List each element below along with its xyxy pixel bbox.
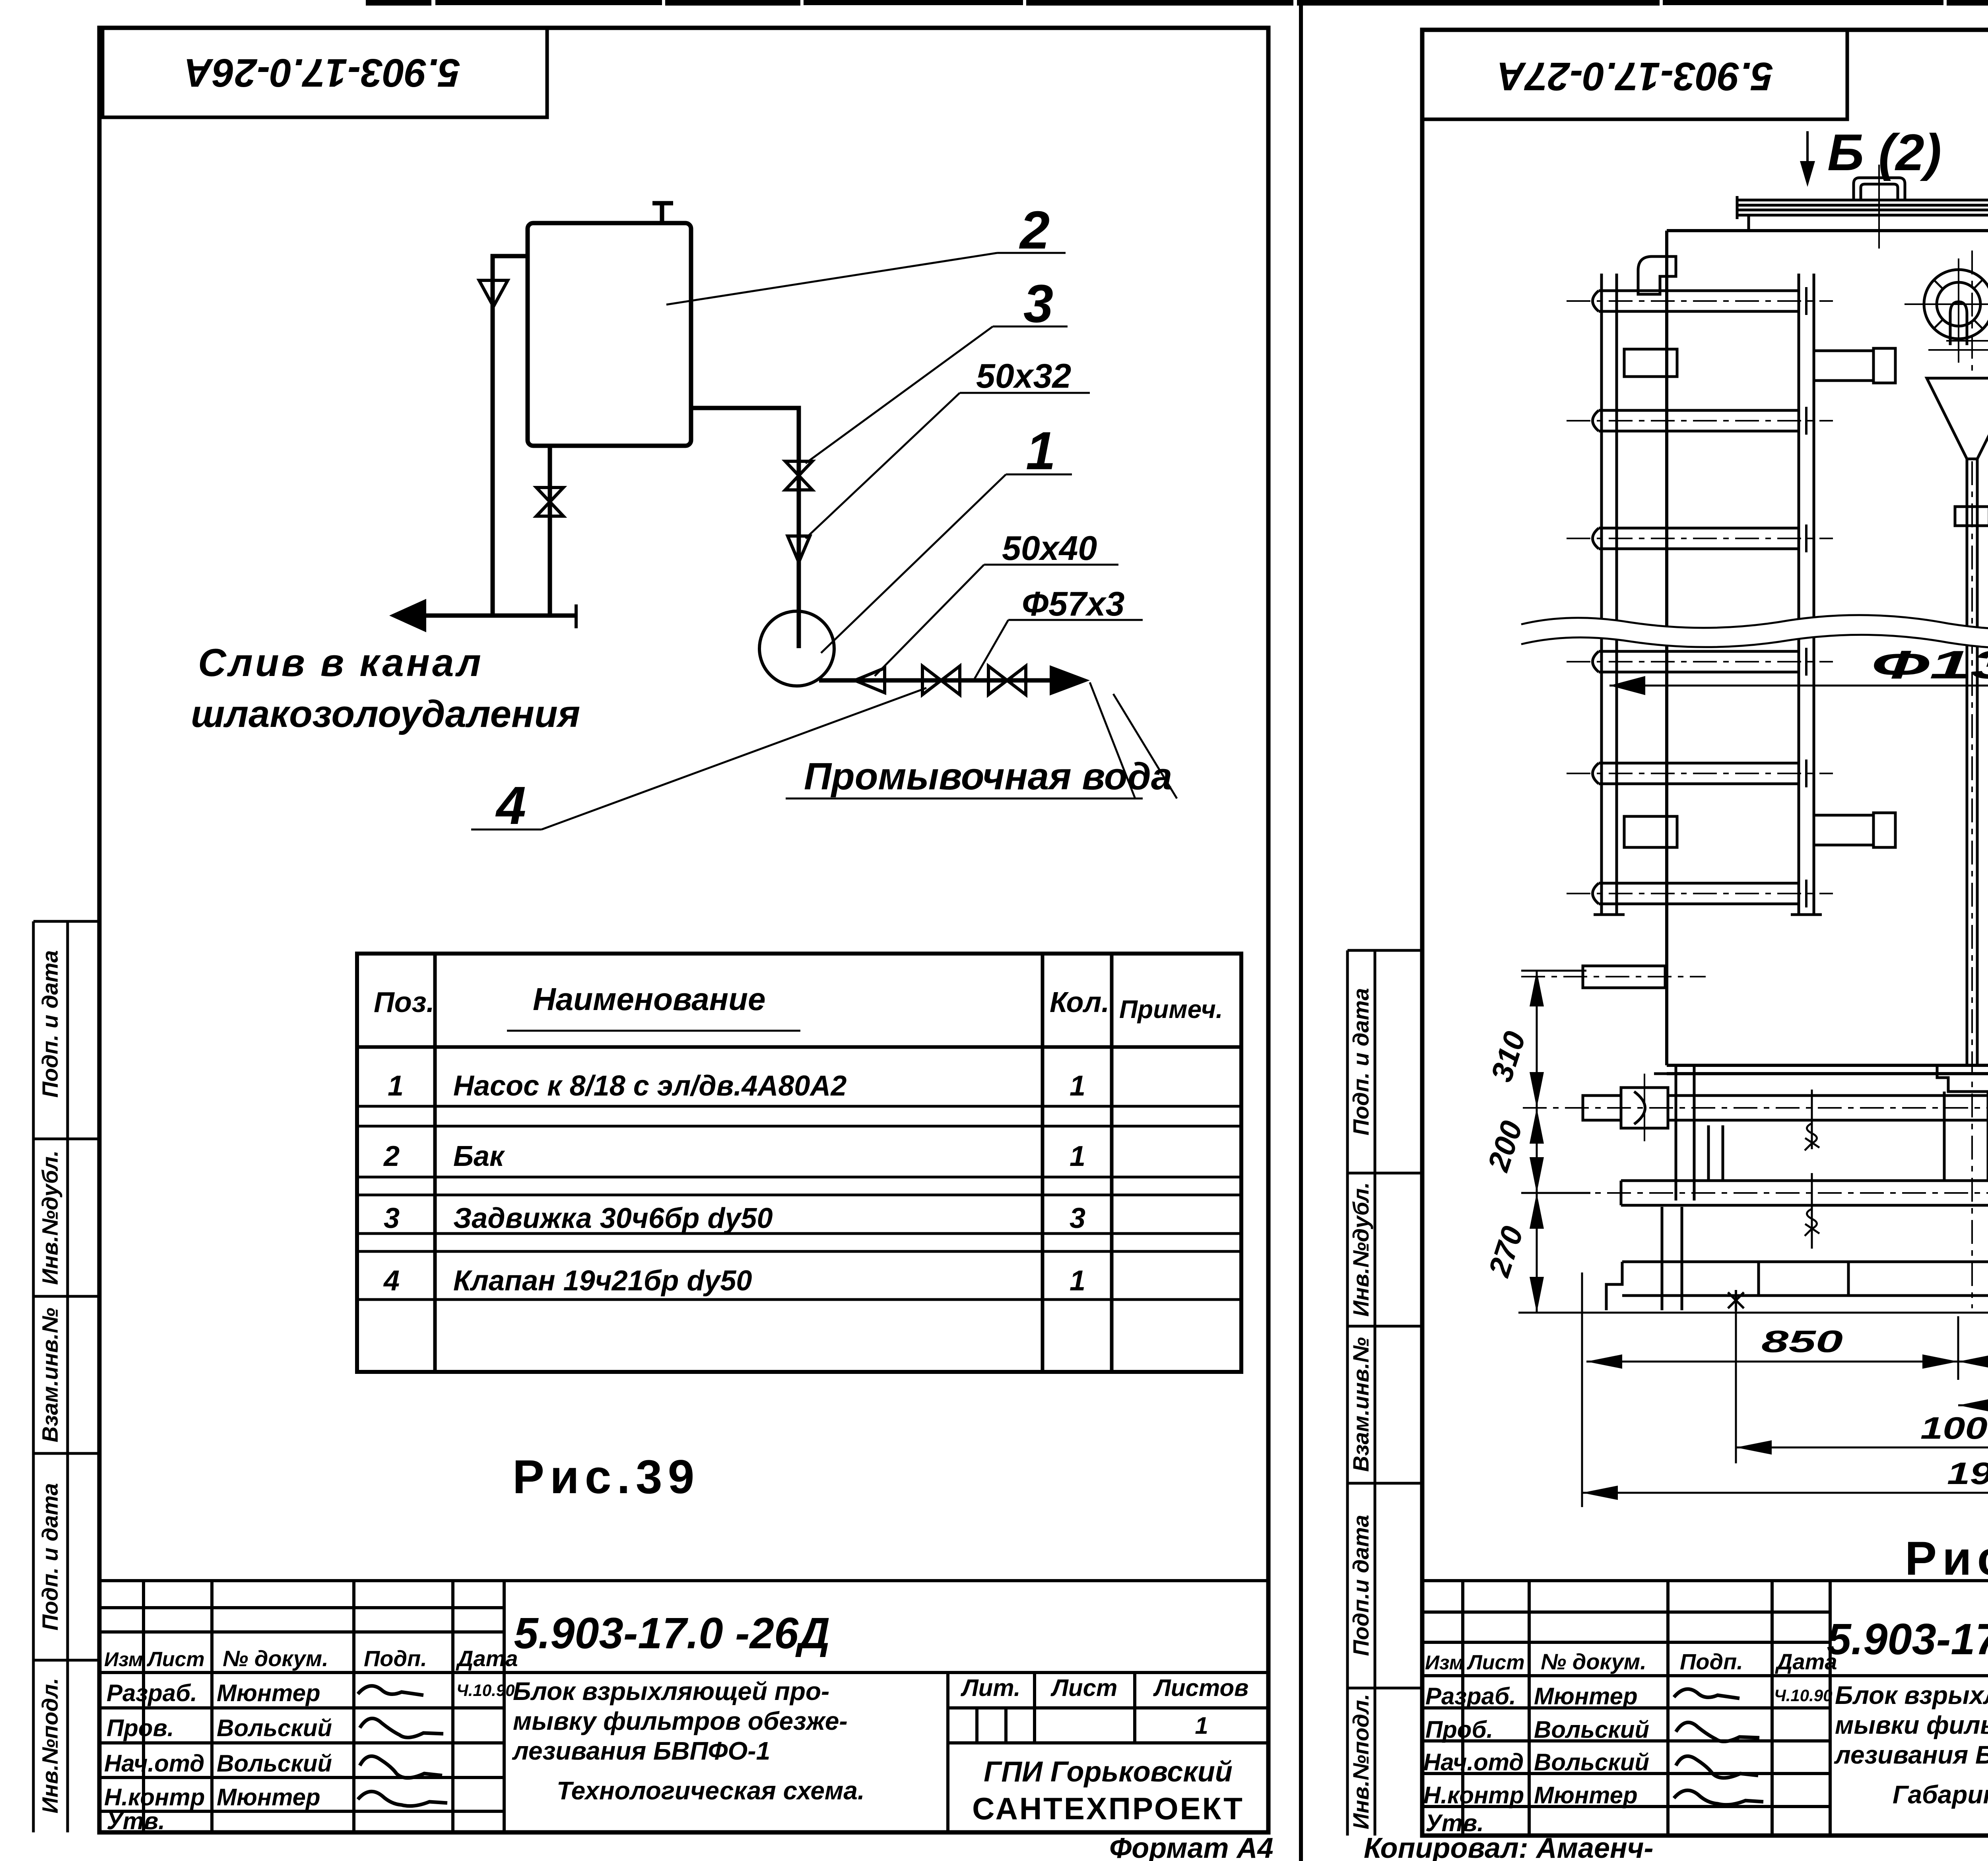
SECTION: schematic bbox=[417, 203, 1052, 680]
dim 150/75 right of vent bbox=[1946, 231, 1988, 358]
star marks bbox=[1728, 1290, 1988, 1311]
tank legs bbox=[1676, 1065, 1988, 1201]
svg-text:Габаритный чертеж.: Габаритный чертеж. bbox=[1893, 1780, 1988, 1809]
svg-text:1: 1 bbox=[388, 1070, 404, 1102]
leader 1 bbox=[821, 474, 1006, 653]
svg-text:Формат А4: Формат А4 bbox=[1109, 1832, 1274, 1861]
svg-text:Подп. и дата: Подп. и дата bbox=[37, 950, 62, 1098]
leader 50x40 bbox=[875, 565, 984, 676]
svg-text:№ докум.: № докум. bbox=[1541, 1649, 1646, 1674]
reducer 50x32 bbox=[788, 536, 810, 562]
SECTION: right drawing bbox=[1481, 123, 1988, 1585]
bottom dims bbox=[1582, 1272, 1988, 1507]
svg-text:5.903-17.0-26А: 5.903-17.0-26А bbox=[184, 51, 460, 95]
svg-text:Примеч.: Примеч. bbox=[1119, 995, 1223, 1024]
svg-text:850: 850 bbox=[1761, 1324, 1843, 1359]
svg-text:1: 1 bbox=[1070, 1140, 1085, 1172]
svg-text:Утв.: Утв. bbox=[107, 1808, 165, 1834]
svg-text:Промывочная вода: Промывочная вода bbox=[804, 755, 1172, 798]
svg-text:Лист: Лист bbox=[1050, 1675, 1118, 1701]
sidebar right sheet bbox=[1347, 950, 1422, 1836]
svg-text:Насос к 8/18 с эл/дв.4А80А2: Насос к 8/18 с эл/дв.4А80А2 bbox=[453, 1070, 846, 1102]
reducer 50x40 bbox=[855, 668, 885, 693]
left protruding nozzle bbox=[1583, 966, 1665, 988]
node center axes dash-dot bbox=[1521, 251, 1988, 1308]
svg-text:Взам.инв.№: Взам.инв.№ bbox=[37, 1308, 62, 1443]
sidebar left sheet bbox=[33, 921, 99, 1832]
svg-text:5.903-17.0 -27Д: 5.903-17.0 -27Д bbox=[1827, 1615, 1988, 1664]
svg-text:3: 3 bbox=[1070, 1202, 1085, 1234]
svg-text:Н.контр: Н.контр bbox=[104, 1784, 205, 1810]
svg-text:САНТЕХПРОЕКТ: САНТЕХПРОЕКТ bbox=[972, 1791, 1244, 1826]
SECTION: parts table bbox=[357, 954, 1241, 1372]
stamp box 26A bbox=[103, 28, 547, 117]
tank body bbox=[1667, 231, 1988, 1074]
svg-text:1: 1 bbox=[1026, 421, 1056, 481]
svg-text:3: 3 bbox=[384, 1202, 400, 1234]
wire drain pipe bbox=[548, 446, 552, 616]
frame left sheet bbox=[99, 28, 1268, 1832]
svg-text:Мюнтер: Мюнтер bbox=[217, 1680, 320, 1706]
svg-text:5.903-17.0-27А: 5.903-17.0-27А bbox=[1497, 54, 1773, 99]
valve 3 bbox=[785, 461, 812, 490]
svg-text:1: 1 bbox=[1195, 1712, 1208, 1739]
svg-text:1980: 1980 bbox=[1947, 1456, 1988, 1491]
svg-text:Разраб.: Разраб. bbox=[107, 1680, 197, 1706]
leader 4 bbox=[471, 829, 542, 831]
valve 5 bbox=[988, 666, 1026, 695]
svg-text:Бак: Бак bbox=[453, 1140, 505, 1172]
drain arrow bbox=[389, 599, 426, 632]
left stub nozzles bbox=[1624, 349, 1677, 847]
svg-text:Кол.: Кол. bbox=[1050, 987, 1109, 1018]
tank lid bbox=[1737, 178, 1988, 231]
SECTION: right title block bbox=[1422, 1581, 1988, 1836]
SECTION: schematic labels bbox=[471, 253, 1177, 829]
svg-text:Клапан 19ч21бр dу50: Клапан 19ч21бр dу50 bbox=[453, 1265, 752, 1297]
wire overflow pipe bbox=[493, 256, 528, 616]
svg-text:Лит.: Лит. bbox=[960, 1675, 1020, 1701]
svg-text:Пров.: Пров. bbox=[107, 1715, 174, 1741]
pedestal legs bbox=[1944, 1092, 1988, 1181]
svg-text:Разраб.: Разраб. bbox=[1425, 1683, 1516, 1709]
svg-text:Инв.№подл.: Инв.№подл. bbox=[1348, 1694, 1373, 1829]
svg-text:Изм: Изм bbox=[104, 1648, 143, 1671]
svg-text:4: 4 bbox=[383, 1265, 400, 1297]
svg-text:Ф57x3: Ф57x3 bbox=[1022, 585, 1124, 623]
svg-text:ГПИ Горьковский: ГПИ Горьковский bbox=[984, 1756, 1233, 1788]
svg-text:лезивания БВПФО-1: лезивания БВПФО-1 bbox=[512, 1737, 770, 1765]
svg-text:Н.контр: Н.контр bbox=[1423, 1782, 1524, 1809]
svg-text:Рис. 40: Рис. 40 bbox=[1905, 1532, 1988, 1585]
suction pipe bbox=[1583, 1088, 1988, 1128]
svg-text:№ докум.: № докум. bbox=[223, 1646, 328, 1671]
leader 50x32 bbox=[806, 393, 960, 538]
svg-text:Лист: Лист bbox=[1466, 1651, 1525, 1674]
signatures right bbox=[1674, 1689, 1763, 1805]
stamp box 27A bbox=[1422, 30, 1847, 119]
svg-text:Нач.отд: Нач.отд bbox=[104, 1750, 204, 1777]
svg-text:лезивания БВПФО-1: лезивания БВПФО-1 bbox=[1834, 1741, 1988, 1769]
svg-text:мывки фильтров обезже-: мывки фильтров обезже- bbox=[1835, 1711, 1988, 1739]
svg-text:Задвижка 30ч6бр dу50: Задвижка 30ч6бр dу50 bbox=[453, 1202, 773, 1234]
wire pump discharge bbox=[819, 678, 1052, 683]
svg-text:Лист: Лист bbox=[146, 1648, 205, 1671]
leader 2 bbox=[666, 253, 997, 305]
top-left elbow bbox=[1638, 256, 1676, 294]
dim arrows bottom bbox=[1586, 1354, 1622, 1369]
tank bottom lips bbox=[1654, 1072, 1988, 1075]
leader 3 bbox=[806, 326, 993, 463]
SECTION: left title block bbox=[99, 1581, 1268, 1832]
pipe break squiggles bbox=[1805, 1090, 1988, 1249]
svg-text:Вольский: Вольский bbox=[217, 1715, 332, 1741]
svg-text:Вольский: Вольский bbox=[1534, 1749, 1649, 1776]
svg-text:Подп.и дата: Подп.и дата bbox=[1348, 1515, 1373, 1656]
svg-text:1: 1 bbox=[1070, 1070, 1085, 1102]
dims 310 200 270 bbox=[1521, 971, 1590, 1313]
svg-text:Б (2): Б (2) bbox=[1827, 123, 1941, 181]
svg-text:Мюнтер: Мюнтер bbox=[1534, 1683, 1638, 1709]
leader voda bbox=[786, 798, 1143, 800]
svg-text:Проб.: Проб. bbox=[1425, 1716, 1493, 1743]
svg-text:Взам.инв.№: Взам.инв.№ bbox=[1348, 1337, 1373, 1472]
svg-text:50x32: 50x32 bbox=[976, 357, 1071, 395]
svg-text:Рис.39: Рис.39 bbox=[513, 1450, 700, 1504]
svg-text:Подп.: Подп. bbox=[364, 1646, 427, 1671]
svg-text:50x40: 50x40 bbox=[1002, 529, 1097, 567]
svg-text:Инв.№подл.: Инв.№подл. bbox=[37, 1678, 62, 1813]
svg-text:2: 2 bbox=[1019, 200, 1050, 260]
svg-text:Ч.10.90: Ч.10.90 bbox=[456, 1681, 515, 1700]
svg-text:5.903-17.0 -26Д: 5.903-17.0 -26Д bbox=[514, 1609, 830, 1658]
frame right sheet bbox=[1422, 30, 1988, 1836]
svg-text:Ф1300: Ф1300 bbox=[1871, 643, 1988, 687]
right side nozzles bbox=[1814, 348, 1895, 847]
svg-text:Блок взрыхляющей про-: Блок взрыхляющей про- bbox=[1835, 1681, 1988, 1709]
svg-text:мывку фильтров обезже-: мывку фильтров обезже- bbox=[513, 1707, 848, 1735]
wire pump suction bbox=[691, 408, 799, 611]
svg-text:Мюнтер: Мюнтер bbox=[217, 1784, 320, 1810]
pump 1 bbox=[759, 611, 834, 686]
svg-text:1000: 1000 bbox=[1920, 1410, 1988, 1445]
funnel bbox=[1927, 378, 1988, 1065]
svg-text:1: 1 bbox=[1070, 1265, 1085, 1297]
svg-text:Ч.10.90: Ч.10.90 bbox=[1774, 1686, 1833, 1705]
svg-text:Изм: Изм bbox=[1425, 1651, 1464, 1674]
vent bbox=[660, 203, 664, 223]
svg-text:Вольский: Вольский bbox=[217, 1750, 332, 1777]
svg-text:Подп. и дата: Подп. и дата bbox=[1348, 988, 1373, 1136]
svg-text:Листов: Листов bbox=[1153, 1675, 1249, 1701]
svg-text:2: 2 bbox=[383, 1140, 400, 1172]
svg-text:Инв.№дубл.: Инв.№дубл. bbox=[1348, 1182, 1373, 1317]
svg-text:Мюнтер: Мюнтер bbox=[1534, 1782, 1638, 1809]
svg-text:3: 3 bbox=[1023, 274, 1053, 334]
vent flange circle bbox=[1924, 270, 1988, 345]
flow arrow bbox=[1050, 665, 1090, 695]
svg-text:4: 4 bbox=[495, 775, 526, 835]
svg-text:Технологическая схема.: Технологическая схема. bbox=[557, 1776, 865, 1805]
svg-text:Копировал: Амаенч-: Копировал: Амаенч- bbox=[1364, 1832, 1653, 1861]
valve on drain pipe bbox=[536, 488, 563, 516]
funnel symbol on overflow bbox=[479, 280, 508, 307]
svg-text:Нач.отд: Нач.отд bbox=[1423, 1749, 1524, 1776]
signatures left bbox=[358, 1686, 447, 1806]
rungs bbox=[1593, 291, 1799, 904]
svg-text:Подп. и дата: Подп. и дата bbox=[37, 1483, 62, 1631]
svg-text:Наименование: Наименование bbox=[533, 981, 765, 1017]
svg-text:Подп.: Подп. bbox=[1680, 1649, 1743, 1674]
SECTION: sheet divider bbox=[1299, 0, 1303, 1861]
valve 4 bbox=[922, 666, 960, 695]
lower rail pipe bbox=[1621, 1181, 1988, 1205]
svg-text:шлакозолоудаления: шлакозолоудаления bbox=[191, 693, 580, 735]
dim F1300 bbox=[1609, 685, 1988, 687]
tank B bbox=[528, 223, 691, 446]
wire drain header bbox=[417, 614, 576, 618]
svg-text:Поз.: Поз. bbox=[374, 987, 435, 1018]
svg-text:Дата: Дата bbox=[456, 1646, 518, 1671]
svg-text:Блок взрыхляющей про-: Блок взрыхляющей про- bbox=[513, 1677, 829, 1706]
leader f57 bbox=[973, 620, 1008, 682]
break band bbox=[1521, 615, 1988, 649]
stem pedestal bbox=[1937, 1065, 1988, 1092]
rung center dashdot + ticks bbox=[1567, 301, 1833, 894]
svg-text:Инв.№дубл.: Инв.№дубл. bbox=[37, 1150, 62, 1285]
ladder rails bbox=[1594, 274, 1822, 915]
base frame bbox=[1518, 1207, 1988, 1313]
SECTION: top scan bar bbox=[366, 0, 1988, 6]
svg-text:Слив в канал: Слив в канал bbox=[198, 641, 483, 684]
svg-text:Вольский: Вольский bbox=[1534, 1716, 1649, 1743]
